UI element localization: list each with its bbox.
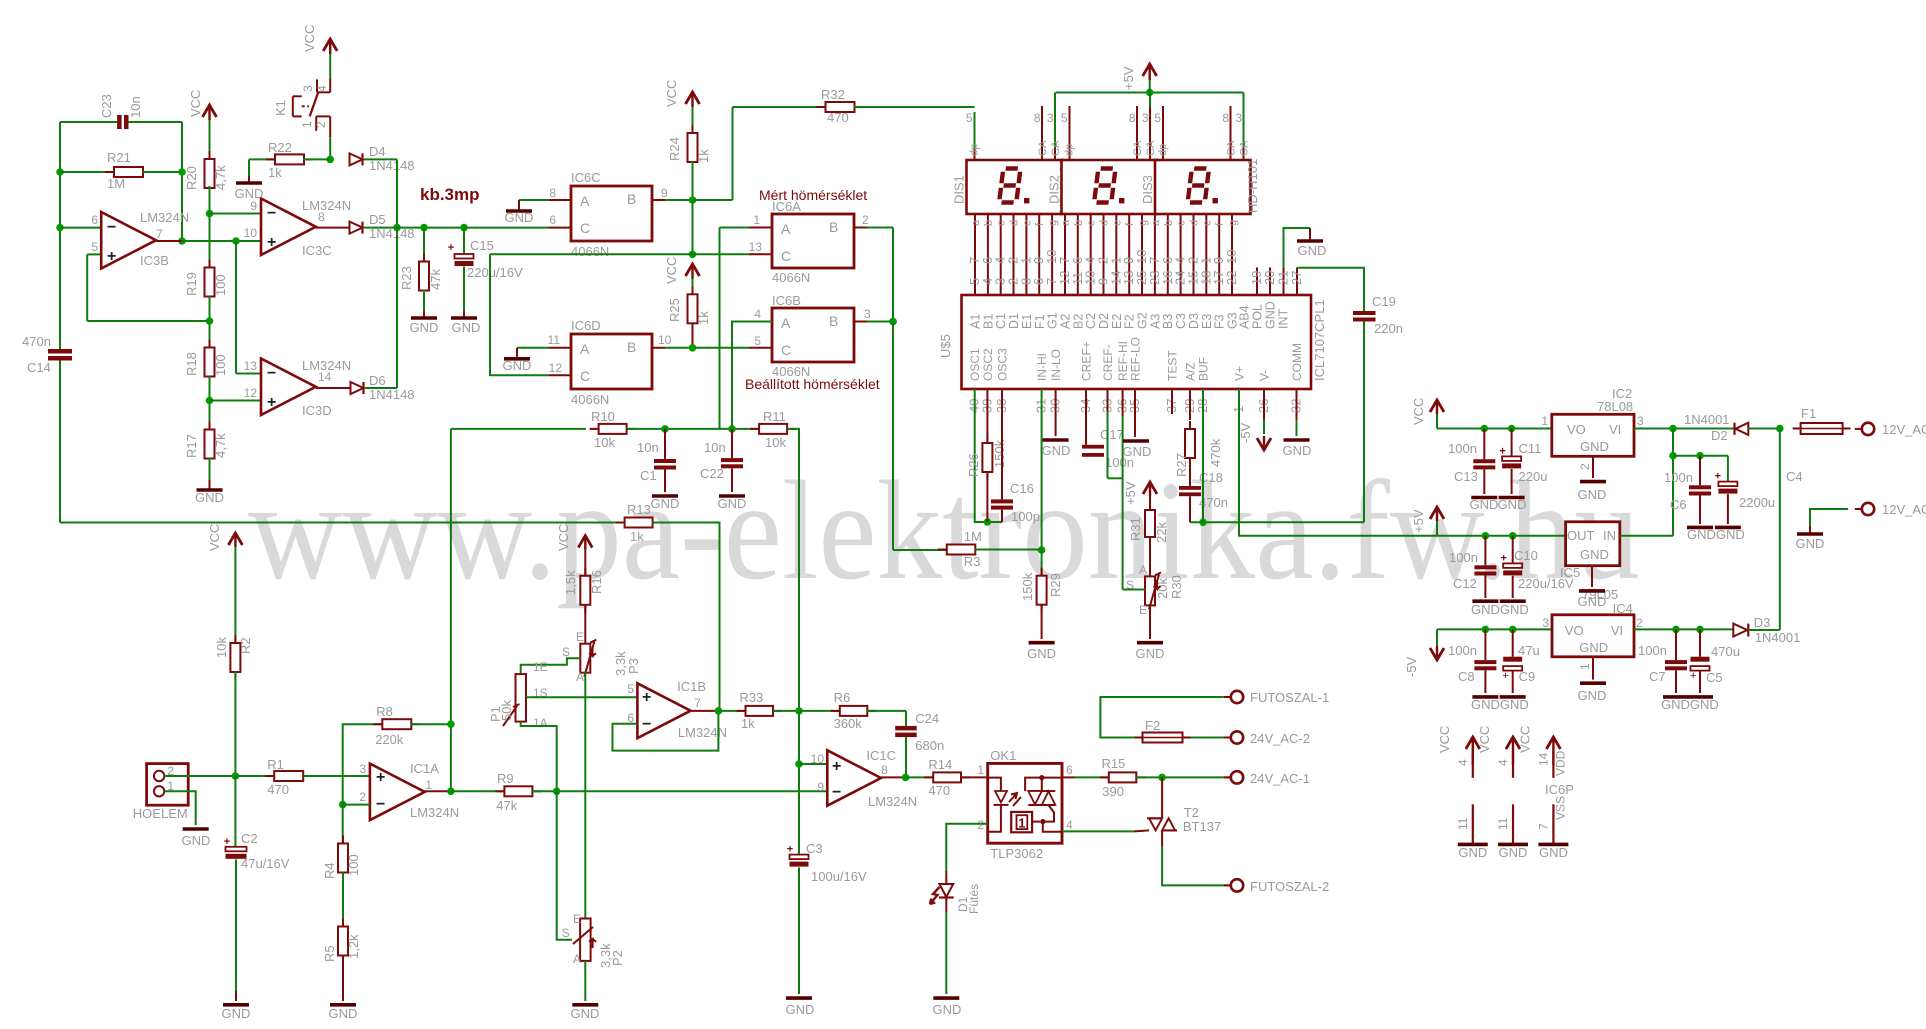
svg-text:47k: 47k [428, 269, 443, 290]
terminal 24V_AC-2 [1224, 731, 1310, 746]
svg-text:D3: D3 [1754, 615, 1771, 630]
svg-text:V-: V- [1258, 370, 1272, 381]
svg-text:GNDGND: GNDGND [1661, 697, 1719, 712]
terminal FUTOSZAL-2 [1224, 879, 1329, 894]
capacitor C12 [1449, 536, 1496, 598]
svg-text:LM324N: LM324N [302, 198, 351, 213]
svg-text:IC5: IC5 [1560, 565, 1580, 580]
wire IC3D pin13 [236, 241, 261, 374]
relay contact K1 [273, 49, 330, 137]
svg-text:R14: R14 [928, 757, 952, 772]
ground C8 C9 [1471, 697, 1529, 712]
+5V arrow supply [1411, 507, 1444, 536]
svg-text:R18: R18 [184, 352, 199, 376]
svg-text:g: g [1227, 220, 1239, 226]
wire HOELEM pin2 [164, 772, 239, 780]
display DIS1 HD-H101 [952, 93, 1072, 215]
svg-text:10n: 10n [128, 96, 143, 118]
svg-text:A: A [580, 341, 590, 357]
svg-text:GND: GND [235, 186, 264, 201]
resistor R3 [938, 529, 1042, 569]
wire T2 down to FUTOSZAL-2 [1162, 846, 1231, 885]
wire P1 wiper row [526, 696, 637, 698]
resistor R26 [966, 389, 1007, 522]
resistor R29 [1020, 550, 1063, 640]
svg-text:R13: R13 [627, 502, 651, 517]
svg-text:R16: R16 [589, 570, 604, 594]
svg-text:390: 390 [1102, 784, 1124, 799]
ground C7 C5 [1661, 697, 1719, 712]
svg-text:R10: R10 [591, 409, 615, 424]
svg-text:POL: POL [1251, 304, 1265, 329]
wire pin9 row IC3C [206, 210, 261, 218]
svg-text:HD-H101: HD-H101 [1245, 159, 1260, 213]
wire pin27 INT to C19 [1297, 268, 1364, 311]
svg-text:OUT: OUT [1567, 528, 1595, 543]
svg-text:d: d [1009, 220, 1021, 226]
capacitor C10 [1500, 536, 1574, 598]
svg-text:−: − [107, 219, 116, 236]
diode D3 [1733, 615, 1800, 645]
IC U$5 ICL7107CPL1 [938, 295, 1327, 389]
watermark www.pa-elektronika.fw.hu [248, 451, 1640, 609]
ground IC2 [1578, 456, 1607, 502]
svg-text:4,7k: 4,7k [213, 165, 228, 190]
svg-text:R5: R5 [322, 945, 337, 962]
wire DIS2 CA pin to rail [1149, 93, 1151, 108]
capacitor C19 [1353, 294, 1403, 336]
svg-text:TEST: TEST [1166, 350, 1180, 381]
svg-text:8: 8 [881, 763, 888, 777]
ground C11 [1498, 497, 1527, 512]
vcc arrow R25 [664, 257, 700, 284]
svg-text:13: 13 [244, 359, 258, 373]
op-amp IC3C [182, 198, 351, 258]
svg-text:10: 10 [1224, 250, 1239, 264]
svg-text:d: d [1189, 220, 1201, 226]
ground R22 [235, 159, 264, 201]
svg-text:1k: 1k [630, 529, 644, 544]
svg-text:470: 470 [928, 783, 950, 798]
optocoupler OK1 TLP3062 [977, 748, 1073, 861]
svg-text:IC6A: IC6A [772, 199, 801, 214]
svg-text:8: 8 [1222, 111, 1229, 125]
svg-text:5: 5 [1154, 111, 1161, 125]
capacitor C1 [637, 425, 676, 492]
resistor R8 [343, 704, 455, 844]
svg-text:B3: B3 [1161, 314, 1175, 329]
trimmer P3 [562, 604, 641, 684]
wire D4 down to D5 row [393, 159, 401, 231]
svg-text:C1: C1 [640, 468, 657, 483]
svg-text:VDD: VDD [1553, 750, 1567, 776]
capacitor C8 [1448, 629, 1496, 693]
svg-text:−: − [642, 716, 651, 733]
svg-text:150k: 150k [1020, 572, 1035, 601]
svg-text:VCC: VCC [302, 25, 317, 52]
svg-text:CA: CA [1226, 140, 1238, 156]
terminal 12V_AC 2 [1855, 502, 1926, 517]
svg-text:GND: GND [1578, 594, 1607, 609]
svg-text:a: a [1060, 219, 1072, 226]
svg-text:6: 6 [1066, 763, 1073, 777]
display segment pins [975, 214, 1297, 295]
svg-text:10k: 10k [594, 435, 615, 450]
svg-text:S: S [562, 926, 570, 940]
svg-text:12: 12 [549, 361, 563, 375]
svg-text:LM324N: LM324N [140, 210, 189, 225]
ground pin21 GND [1284, 228, 1327, 268]
resistor R6 [799, 690, 906, 731]
svg-text:E3: E3 [1200, 314, 1214, 329]
svg-text:8: 8 [549, 186, 556, 200]
svg-text:1,2k: 1,2k [346, 934, 361, 959]
svg-text:1M: 1M [107, 176, 125, 191]
svg-text:TLP3062: TLP3062 [990, 846, 1043, 861]
svg-text:+: + [642, 689, 651, 706]
svg-text:+: + [787, 844, 793, 856]
svg-text:kb.3mp: kb.3mp [420, 185, 480, 204]
svg-text:R25: R25 [667, 298, 682, 322]
svg-text:A: A [781, 315, 791, 331]
capacitor C5 [1690, 629, 1740, 693]
wire pin10 row IC1C [795, 711, 827, 855]
resistor R13 [616, 502, 720, 711]
svg-text:B2: B2 [1071, 314, 1085, 329]
svg-text:LM324N: LM324N [678, 725, 727, 740]
svg-text:10: 10 [658, 333, 672, 347]
svg-text:P2: P2 [610, 950, 625, 966]
svg-text:R24: R24 [667, 137, 682, 161]
resistor R31 [1128, 496, 1169, 576]
svg-text:C15: C15 [470, 238, 494, 253]
svg-text:470: 470 [827, 110, 849, 125]
svg-text:FUTOSZAL-1: FUTOSZAL-1 [1250, 690, 1329, 705]
svg-text:C3: C3 [806, 841, 823, 856]
svg-text:C8: C8 [1458, 669, 1475, 684]
wire IC6B out down to R3 [893, 322, 947, 551]
svg-text:1N4001: 1N4001 [1755, 630, 1801, 645]
svg-text:V+: V+ [1233, 366, 1247, 381]
svg-text:LM324N: LM324N [868, 794, 917, 809]
svg-text:1N4001: 1N4001 [1684, 412, 1730, 427]
wire pin40 OSC1 [975, 389, 1002, 526]
ground C3 [786, 998, 815, 1017]
wire R32 to DIS1 dp [854, 106, 975, 108]
svg-text:220n: 220n [1374, 321, 1403, 336]
svg-text:5: 5 [754, 334, 761, 348]
wire F2 to 24V_AC-2 [1191, 737, 1224, 739]
vcc arrow supply [1411, 398, 1444, 429]
svg-text:C3: C3 [1174, 313, 1188, 329]
resistor R11 [750, 409, 799, 711]
ground R5 [329, 1005, 358, 1021]
svg-text:-5V: -5V [1404, 656, 1419, 677]
svg-text:D4: D4 [369, 144, 386, 159]
svg-text:470n: 470n [22, 334, 51, 349]
svg-text:27: 27 [1289, 271, 1304, 285]
svg-text:G1: G1 [1046, 312, 1060, 329]
svg-text:GND: GND [505, 210, 534, 225]
trimmer P1 [488, 660, 548, 730]
terminal FUTOSZAL-1 [1224, 690, 1329, 705]
svg-text:−: − [267, 365, 276, 382]
wire C6 C4 rail [1669, 429, 1728, 536]
resistor R15 [1100, 756, 1231, 799]
wire C23 row [60, 121, 182, 123]
svg-text:B: B [627, 191, 636, 207]
svg-text:IC1B: IC1B [677, 679, 706, 694]
svg-text:22k: 22k [1154, 522, 1169, 543]
svg-text:12V_AC: 12V_AC [1882, 422, 1926, 437]
+5V arrow displays [1056, 64, 1244, 96]
svg-text:B: B [829, 219, 838, 235]
resistor R16 [563, 550, 604, 613]
svg-text:9: 9 [661, 186, 668, 200]
wire IC1B feedback [613, 707, 723, 750]
svg-text:100n: 100n [1449, 550, 1478, 565]
wire pin1 V+ down [1239, 389, 1437, 536]
display DIS3 HD-H101 [1140, 93, 1260, 215]
svg-text:GND: GND [1579, 640, 1608, 655]
wire C14 bottom to R13 row [60, 361, 625, 523]
svg-text:R21: R21 [107, 150, 131, 165]
text kb.3mp [420, 185, 480, 204]
svg-text:GND: GND [182, 833, 211, 848]
wire pin13 row [490, 254, 772, 375]
wire IC4 VI to D3 [1634, 626, 1733, 634]
svg-text:+: + [267, 394, 276, 411]
svg-text:+5V: +5V [1123, 481, 1138, 505]
svg-text:150k: 150k [992, 439, 1007, 468]
svg-text:B: B [829, 313, 838, 329]
svg-text:BUF: BUF [1197, 357, 1211, 381]
ground IC5 [1578, 566, 1607, 609]
svg-text:4: 4 [315, 85, 329, 92]
svg-text:78L08: 78L08 [1597, 399, 1633, 414]
svg-text:9: 9 [817, 780, 824, 794]
svg-text:BT137: BT137 [1183, 819, 1221, 834]
resistor R21 [60, 150, 182, 191]
svg-text:GND: GND [1580, 547, 1609, 562]
svg-text:+: + [107, 248, 116, 265]
svg-text:IC3B: IC3B [140, 253, 169, 268]
triac T2 [1147, 777, 1221, 846]
svg-text:4: 4 [1456, 759, 1470, 766]
diode D6 [351, 228, 415, 402]
wire K1 to R22 junction [326, 137, 334, 163]
svg-text:A/Z: A/Z [1184, 362, 1198, 381]
svg-text:GND: GND [1578, 487, 1607, 502]
svg-text:8: 8 [1129, 111, 1136, 125]
svg-text:680n: 680n [915, 738, 944, 753]
svg-text:GND: GND [329, 1006, 358, 1021]
svg-text:+: + [1502, 670, 1508, 682]
capacitor C23 [99, 94, 143, 129]
svg-text:1k: 1k [741, 716, 755, 731]
svg-text:1M: 1M [964, 529, 982, 544]
IC IC5 79L05 [1560, 522, 1620, 602]
svg-text:4066N: 4066N [571, 244, 609, 259]
svg-text:R9: R9 [497, 771, 514, 786]
svg-text:R1: R1 [267, 757, 284, 772]
svg-text:E: E [1139, 603, 1147, 617]
ground C15 [451, 311, 480, 335]
svg-text:R30: R30 [1169, 575, 1184, 599]
svg-text:R8: R8 [376, 704, 393, 719]
svg-text:DIS2: DIS2 [1047, 175, 1062, 204]
svg-text:IC1C: IC1C [866, 748, 896, 763]
svg-text:8: 8 [1034, 111, 1041, 125]
svg-text:7: 7 [156, 227, 163, 241]
capacitor C22 [700, 429, 743, 492]
svg-text:CREF+: CREF+ [1080, 341, 1094, 381]
resistor R32 [733, 87, 864, 125]
svg-text:R2: R2 [238, 637, 253, 654]
svg-text:GND: GND [1578, 688, 1607, 703]
svg-text:D5: D5 [369, 212, 386, 227]
display DIS2 HD-H101 [1047, 106, 1167, 214]
terminal 24V_AC-1 [1224, 771, 1310, 786]
svg-text:GND: GND [1042, 443, 1071, 458]
svg-text:C13: C13 [1454, 469, 1478, 484]
svg-text:A: A [1139, 563, 1147, 577]
op-amp IC3D [210, 358, 352, 418]
wire HOELEM pin1 to GND [164, 791, 195, 825]
svg-text:T2: T2 [1184, 805, 1199, 820]
svg-text:AB4: AB4 [1238, 305, 1252, 329]
svg-text:1: 1 [1578, 663, 1592, 670]
vcc arrow R31 [1123, 481, 1157, 505]
svg-text:R20: R20 [184, 166, 199, 190]
svg-text:GND: GND [571, 1006, 600, 1021]
svg-text:11: 11 [1456, 817, 1470, 830]
svg-text:R6: R6 [834, 690, 851, 705]
capacitor C2 [224, 776, 290, 1001]
wire D5 row to IC6C pin6 [464, 227, 571, 229]
svg-text:10: 10 [811, 752, 825, 766]
vcc arrow K1 [302, 25, 337, 54]
svg-text:FUTOSZAL-2: FUTOSZAL-2 [1250, 879, 1329, 894]
-5V arrow pin26 [1238, 389, 1271, 450]
svg-text:OK1: OK1 [990, 748, 1016, 763]
svg-text:6: 6 [549, 213, 556, 227]
op-amp IC1C [811, 748, 918, 809]
diode D4 [350, 144, 415, 173]
svg-text:220u: 220u [1519, 469, 1548, 484]
wire pin33 CREF- jog [1108, 389, 1123, 478]
svg-text:COMM: COMM [1290, 343, 1304, 381]
svg-text:R15: R15 [1102, 756, 1126, 771]
svg-text:C4: C4 [1786, 469, 1803, 484]
ground 12V_AC 2 [1796, 526, 1825, 551]
svg-text:REF-LO: REF-LO [1129, 337, 1143, 381]
svg-text:R26: R26 [966, 453, 981, 477]
svg-text:VCC: VCC [1517, 726, 1532, 753]
svg-text:OSC3: OSC3 [996, 348, 1010, 381]
svg-text:8: 8 [318, 210, 325, 224]
svg-text:+: + [1499, 445, 1505, 457]
wire feedback row y321 [87, 254, 213, 324]
svg-text:GND: GND [1264, 301, 1278, 329]
svg-text:3: 3 [1047, 111, 1054, 125]
svg-text:2: 2 [359, 790, 366, 804]
wire IC1A out junction [447, 788, 504, 796]
wire left vertical x60 [56, 122, 64, 350]
capacitor C3 [787, 841, 867, 994]
svg-text:+: + [267, 234, 276, 251]
ground pin35 REF-LO [1123, 389, 1152, 459]
svg-text:1N4148: 1N4148 [369, 226, 415, 241]
ground IC4 [1578, 657, 1607, 703]
svg-text:C: C [580, 368, 590, 384]
svg-text:GND: GND [1027, 646, 1056, 661]
svg-text:1k: 1k [268, 165, 282, 180]
svg-text:R27: R27 [1174, 453, 1189, 477]
svg-text:G2: G2 [1136, 312, 1150, 329]
wire pin2 row [339, 801, 370, 809]
ground R29 [1027, 643, 1056, 661]
wire FUTOSZAL-1 to F2 [1100, 697, 1223, 738]
svg-text:VCC: VCC [664, 80, 679, 107]
svg-text:CA: CA [1239, 140, 1251, 156]
resistor R33 [718, 690, 802, 731]
led D1 [930, 871, 981, 914]
svg-text:VO: VO [1567, 422, 1586, 437]
svg-text:VI: VI [1609, 422, 1621, 437]
svg-text:11: 11 [548, 333, 561, 347]
ground IC6C pin8 [505, 200, 534, 225]
svg-text:D2: D2 [1711, 428, 1728, 443]
wire OK1 pin4 row [1062, 830, 1149, 831]
wire VCC rail [1437, 425, 1552, 433]
resistor R9 [495, 771, 827, 813]
connector HOELEM [133, 764, 188, 821]
svg-text:a: a [970, 219, 982, 226]
wire 12V_AC 2 to GND [1810, 509, 1848, 526]
svg-text:F2: F2 [1145, 718, 1160, 733]
svg-text:5: 5 [1061, 111, 1068, 125]
svg-text:GND: GND [1539, 845, 1568, 860]
svg-text:C22: C22 [700, 466, 724, 481]
svg-text:1N4148: 1N4148 [369, 158, 415, 173]
svg-text:VCC: VCC [188, 90, 203, 117]
svg-text:e: e [1111, 220, 1123, 226]
svg-text:e: e [1021, 220, 1033, 226]
svg-text:a: a [1150, 219, 1162, 226]
resistor R19 [184, 214, 228, 349]
svg-text:R29: R29 [1048, 573, 1063, 597]
svg-text:7: 7 [694, 696, 701, 710]
wire -5V rail [1437, 626, 1552, 634]
svg-text:+: + [1500, 552, 1506, 564]
ground D1 [933, 998, 962, 1017]
svg-text:d: d [1099, 220, 1111, 226]
svg-text:C: C [580, 220, 590, 236]
svg-text:IC3C: IC3C [302, 243, 332, 258]
svg-text:1: 1 [1018, 816, 1025, 831]
svg-text:A: A [580, 193, 590, 209]
IC IC6B [732, 293, 897, 429]
capacitor C9 [1502, 629, 1539, 693]
resistor R2 [214, 547, 253, 776]
resistor R14 [924, 757, 988, 798]
svg-text:4: 4 [1066, 818, 1073, 832]
svg-text:4: 4 [754, 307, 761, 321]
svg-text:4066N: 4066N [571, 392, 609, 407]
power pins group 1 [1437, 726, 1488, 860]
capacitor C17 [1082, 389, 1134, 470]
